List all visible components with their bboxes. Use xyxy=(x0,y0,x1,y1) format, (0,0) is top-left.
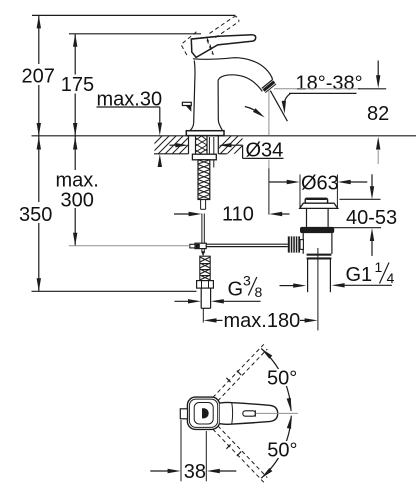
svg-text:Ø63: Ø63 xyxy=(301,172,339,194)
svg-text:350: 350 xyxy=(19,204,52,226)
svg-text:110: 110 xyxy=(222,204,254,226)
svg-text:38: 38 xyxy=(184,461,206,483)
svg-text:Ø34: Ø34 xyxy=(246,140,284,162)
svg-text:G: G xyxy=(228,278,244,300)
svg-text:max.: max. xyxy=(56,170,99,192)
svg-text:1: 1 xyxy=(375,259,383,275)
svg-text:max.180: max.180 xyxy=(224,310,301,332)
svg-text:82: 82 xyxy=(367,103,389,125)
svg-text:4: 4 xyxy=(387,270,395,286)
svg-text:300: 300 xyxy=(61,190,94,212)
svg-text:8: 8 xyxy=(255,284,263,300)
svg-text:207: 207 xyxy=(22,66,55,88)
svg-text:50°: 50° xyxy=(267,439,297,461)
svg-text:G1: G1 xyxy=(346,264,373,286)
svg-text:3: 3 xyxy=(243,273,251,289)
svg-text:40-53: 40-53 xyxy=(346,207,397,229)
svg-text:175: 175 xyxy=(61,74,94,96)
svg-text:50°: 50° xyxy=(267,368,297,390)
svg-text:18°-38°: 18°-38° xyxy=(296,72,363,94)
